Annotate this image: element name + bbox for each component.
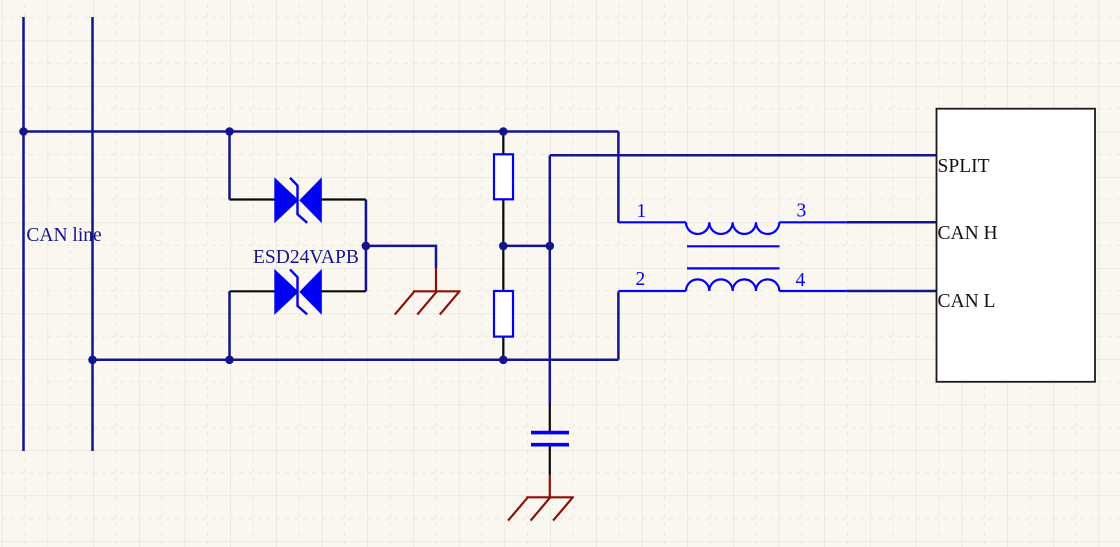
resistor R2 xyxy=(494,291,513,337)
TVS diode D1 (bidirectional, ESD24VAPB top) xyxy=(274,177,322,223)
pin C1 top xyxy=(549,403,551,431)
wire SPLIT horizontal xyxy=(550,154,937,157)
resistor R1 xyxy=(494,154,513,199)
junction dot top net / R1 xyxy=(499,127,508,136)
svg-text:SPLIT: SPLIT xyxy=(938,156,990,177)
wire TVS right side vertical (D1 to D2) xyxy=(365,200,368,292)
wire vertical drop to TVS D1 left lead xyxy=(228,132,231,200)
wire CAN bus line B vertical xyxy=(91,17,94,451)
svg-text:CAN line: CAN line xyxy=(26,225,101,246)
wire top horizontal net xyxy=(24,130,619,133)
wire CAN L from choke pin 4 to connector xyxy=(847,290,937,293)
junction dot divider mid right xyxy=(546,242,555,251)
ground symbol G1 (TVS common) xyxy=(395,267,461,315)
svg-text:CAN L: CAN L xyxy=(938,291,996,312)
common-mode choke L1 core lines xyxy=(687,246,780,268)
svg-text:3: 3 xyxy=(797,201,807,222)
pin D1 right lead xyxy=(322,198,366,200)
junction dot bottom net / TVS branch xyxy=(225,356,234,365)
capacitor C1 xyxy=(531,433,569,445)
pin R2 top xyxy=(502,246,504,291)
junction dot TVS common node xyxy=(362,242,371,251)
junction dot divider mid left xyxy=(499,242,508,251)
ground symbol G2 (capacitor) xyxy=(508,475,574,521)
svg-text:4: 4 xyxy=(796,270,806,291)
wire TVS common node to ground xyxy=(366,246,436,269)
wire CAN H from choke pin 3 to connector xyxy=(847,221,937,224)
wire resistor divider mid tap xyxy=(503,245,550,248)
common-mode choke L1 winding 2 (bottom) xyxy=(619,279,847,291)
svg-text:2: 2 xyxy=(636,269,646,290)
TVS diode D2 (bidirectional, ESD24VAPB bottom) xyxy=(274,269,322,315)
wire CAN bus line A vertical xyxy=(22,17,25,451)
pin R1 top xyxy=(502,132,504,155)
junction dot bottom net / line B xyxy=(88,356,97,365)
wire SPLIT vertical down to capacitor xyxy=(549,155,552,403)
junction dot top net / line A xyxy=(19,127,28,136)
common-mode choke L1 winding 1 (top) xyxy=(619,222,847,234)
pin C1 bottom xyxy=(549,447,551,475)
wire vertical from top net down to choke pin 1 xyxy=(617,132,620,223)
svg-text:ESD24VAPB: ESD24VAPB xyxy=(253,247,359,268)
wire bottom horizontal net xyxy=(93,359,619,362)
junction dot top net / TVS branch xyxy=(225,127,234,136)
pin D2 right lead xyxy=(322,290,366,292)
pin R2 bottom xyxy=(502,337,504,360)
wire vertical from bottom net up to choke pin 2 xyxy=(617,291,620,359)
connector box U1 xyxy=(937,109,1096,382)
wire vertical from TVS D2 left lead down to bottom net xyxy=(228,291,231,360)
pin D2 left lead xyxy=(230,290,276,292)
junction dot bottom net / R2 xyxy=(499,356,508,365)
pin R1 bottom xyxy=(502,199,504,246)
pin D1 left lead xyxy=(230,198,276,200)
svg-text:1: 1 xyxy=(637,201,647,222)
svg-text:CAN H: CAN H xyxy=(938,223,998,244)
